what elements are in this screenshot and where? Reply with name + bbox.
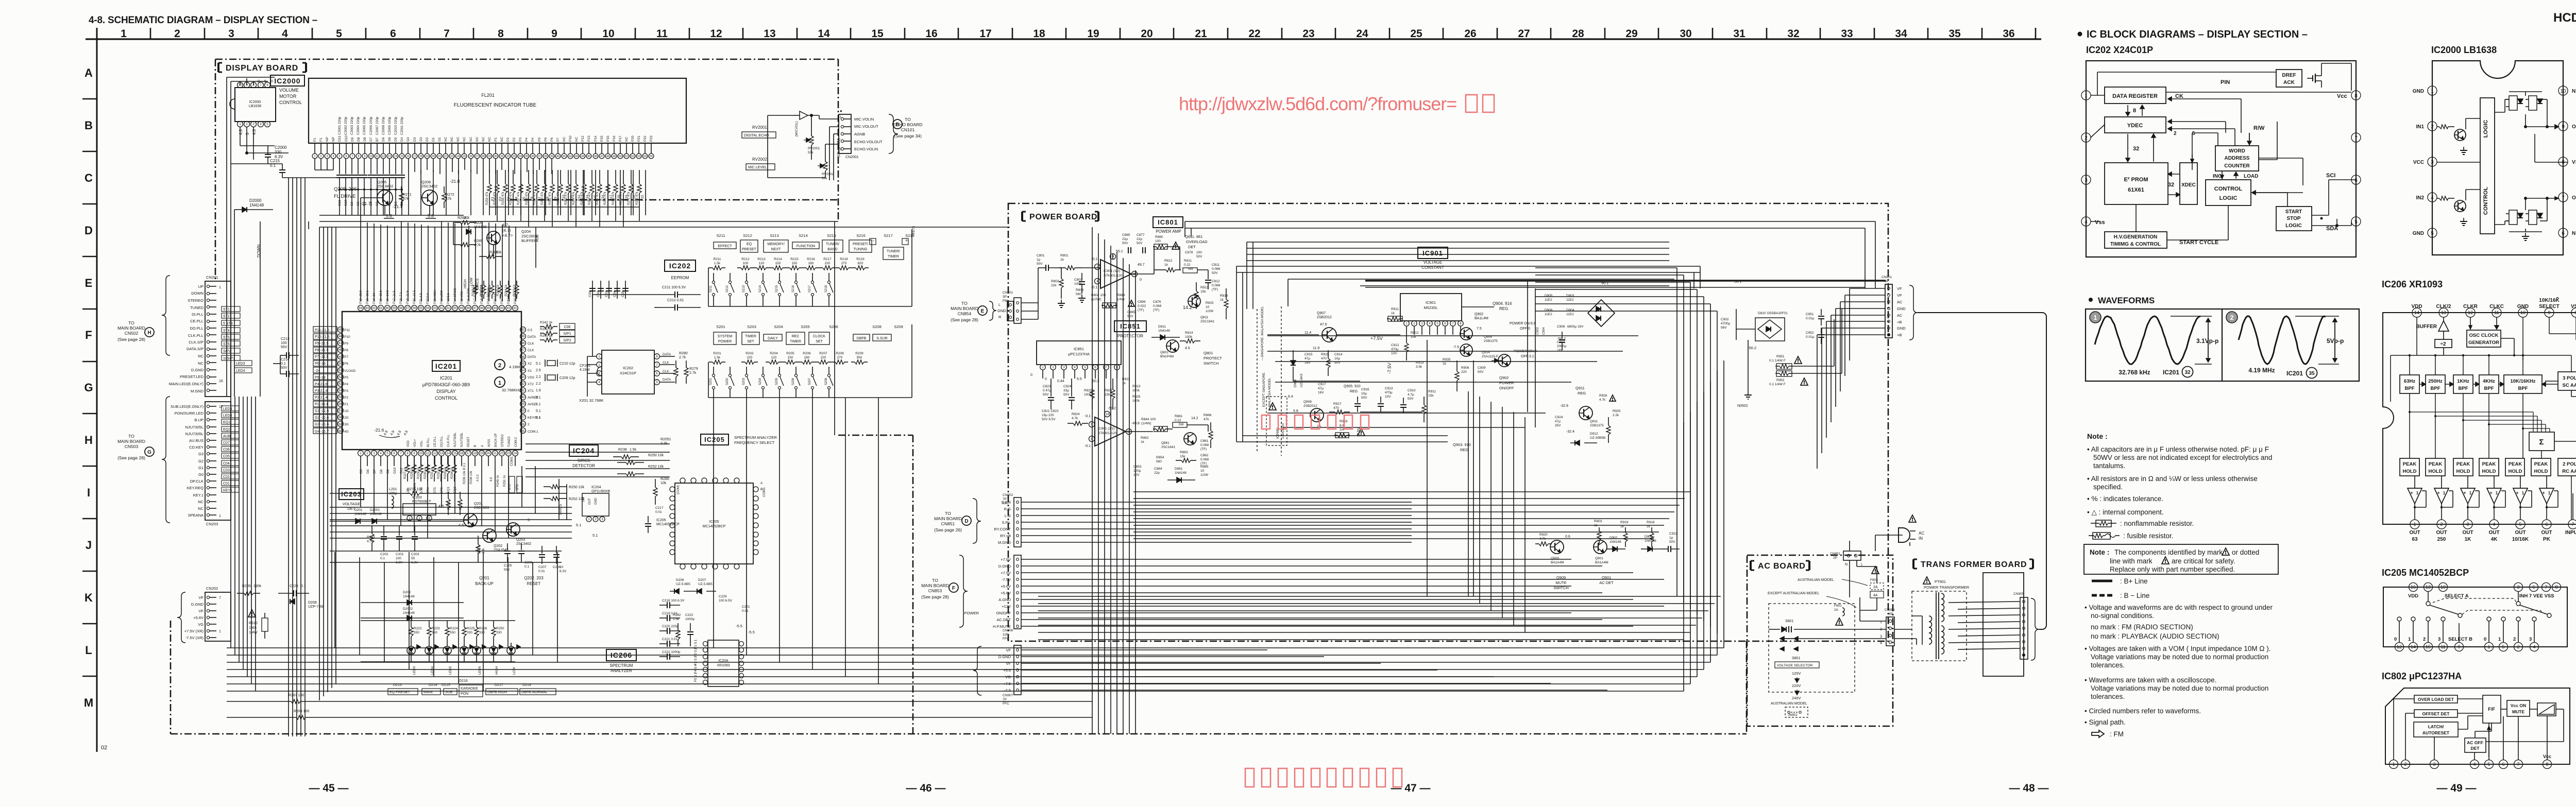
svg-text:0.01μ: 0.01μ bbox=[1806, 317, 1815, 320]
svg-text:R803: R803 bbox=[1076, 288, 1084, 292]
IC205 bottom pin 4 bbox=[2530, 643, 2539, 651]
svg-text:49.7: 49.7 bbox=[1138, 263, 1145, 267]
svg-text:52: 52 bbox=[339, 376, 343, 379]
svg-text:R271: R271 bbox=[403, 193, 412, 197]
svg-text:5.8: 5.8 bbox=[1293, 409, 1298, 413]
svg-text:50V: 50V bbox=[1063, 393, 1070, 397]
svg-text:D901: D901 bbox=[1645, 535, 1653, 539]
svg-text:• △ : internal component.: • △ : internal component. bbox=[2087, 508, 2164, 516]
svg-text:R263 47k: R263 47k bbox=[565, 191, 568, 205]
svg-text:39: 39 bbox=[521, 335, 525, 338]
IC2000 CONTROL LOGIC box bbox=[2480, 98, 2495, 234]
svg-text:2SC3402: 2SC3402 bbox=[516, 542, 531, 546]
C201 capacitor bbox=[399, 525, 400, 536]
svg-text:no mark : PLAYBACK (AUDIO SECT: no mark : PLAYBACK (AUDIO SECTION) bbox=[2091, 632, 2219, 640]
IC206 comparator and pin 7 bbox=[2568, 520, 2576, 529]
AC board boundary bbox=[1747, 555, 1893, 726]
svg-text:550: 550 bbox=[450, 631, 455, 634]
svg-text:S204: S204 bbox=[774, 324, 783, 329]
svg-text:0.01: 0.01 bbox=[655, 510, 662, 514]
svg-text:4.7k: 4.7k bbox=[367, 540, 374, 543]
svg-text:2: 2 bbox=[2084, 135, 2088, 141]
svg-text:C2005 220p: C2005 220p bbox=[363, 116, 366, 135]
svg-text:1k: 1k bbox=[1141, 440, 1145, 444]
svg-text:-0.1: -0.1 bbox=[1091, 257, 1097, 261]
svg-text:23: 23 bbox=[1302, 28, 1314, 40]
svg-text:0.47μ: 0.47μ bbox=[1043, 389, 1052, 392]
svg-text:2SB1375: 2SB1375 bbox=[1590, 424, 1604, 427]
svg-text:DO.PLL: DO.PLL bbox=[440, 436, 444, 447]
svg-text:DATA.S/P: DATA.S/P bbox=[187, 347, 204, 351]
svg-text:Q202. 203: Q202. 203 bbox=[524, 576, 544, 580]
svg-text:μPD78043GF-060-3B9: μPD78043GF-060-3B9 bbox=[422, 382, 470, 387]
svg-text:D912: D912 bbox=[1590, 432, 1598, 436]
svg-text:4: 4 bbox=[1880, 642, 1882, 645]
capacitor column C218-C230 bbox=[667, 602, 668, 608]
svg-text:AUTORESET: AUTORESET bbox=[2422, 730, 2450, 735]
svg-text:R854: R854 bbox=[1156, 456, 1164, 459]
svg-text:LED3: LED3 bbox=[236, 362, 245, 366]
C202 capacitor bbox=[383, 525, 384, 536]
svg-text:AC: AC bbox=[1897, 313, 1903, 318]
svg-text:D205: D205 bbox=[474, 221, 483, 225]
svg-text:R272 47k: R272 47k bbox=[636, 191, 639, 205]
svg-text:F: F bbox=[85, 329, 92, 341]
svg-text:2: 2 bbox=[498, 363, 501, 369]
svg-text:RESET: RESET bbox=[527, 581, 541, 586]
svg-text:47: 47 bbox=[339, 342, 343, 345]
svg-text:C915: C915 bbox=[1304, 353, 1313, 356]
svg-text:38: 38 bbox=[544, 155, 547, 158]
IC206 pin 10 GND bbox=[2518, 308, 2528, 317]
svg-text:CLK.S/P: CLK.S/P bbox=[189, 340, 204, 345]
svg-text:HOLD: HOLD bbox=[2482, 469, 2496, 474]
svg-text:P22 D1: P22 D1 bbox=[507, 293, 511, 304]
svg-text:11: 11 bbox=[656, 28, 668, 40]
svg-text:S.P.L: S.P.L bbox=[1002, 520, 1011, 525]
svg-text:N0502: N0502 bbox=[1737, 404, 1748, 408]
svg-text:0.22: 0.22 bbox=[1175, 419, 1181, 422]
svg-text:560: 560 bbox=[1076, 293, 1081, 296]
svg-text:6: 6 bbox=[2532, 585, 2535, 590]
svg-text:IC901: IC901 bbox=[1422, 249, 1443, 257]
svg-text:2.7k: 2.7k bbox=[689, 371, 697, 375]
IC901 M5230L chip bbox=[1400, 294, 1462, 321]
FL grid capacitor row bbox=[339, 159, 340, 174]
net labels LED5 LED6 EQ AUB bbox=[222, 406, 239, 411]
svg-text:1k: 1k bbox=[1164, 263, 1168, 267]
IC206 pin 8 VSS bbox=[2571, 308, 2576, 317]
svg-text:C906: C906 bbox=[1557, 325, 1565, 329]
svg-text:P11: P11 bbox=[344, 329, 350, 332]
svg-text:10: 10 bbox=[560, 565, 564, 569]
svg-text:DISPLAY: DISPLAY bbox=[436, 389, 455, 394]
svg-text:32: 32 bbox=[506, 155, 510, 158]
svg-text:+: + bbox=[2463, 490, 2466, 495]
IC201 right pins 40-25 bbox=[520, 327, 526, 333]
svg-text:S211: S211 bbox=[717, 233, 725, 238]
svg-text:16: 16 bbox=[406, 155, 410, 158]
svg-text:(See page 28): (See page 28) bbox=[117, 337, 145, 342]
svg-text:R889: R889 bbox=[1117, 294, 1125, 297]
svg-text:49: 49 bbox=[613, 155, 616, 158]
svg-text:1: 1 bbox=[2416, 491, 2419, 495]
svg-text:47μ: 47μ bbox=[1318, 387, 1324, 390]
svg-text:IC851: IC851 bbox=[1074, 347, 1084, 351]
svg-text:AUB: AUB bbox=[536, 234, 539, 242]
svg-text:47.6: 47.6 bbox=[1320, 323, 1327, 327]
svg-text:TIMIMG & CONTROL: TIMIMG & CONTROL bbox=[2110, 242, 2161, 247]
svg-text:1: 1 bbox=[219, 514, 221, 518]
IC802 pin 6 bbox=[2499, 760, 2508, 769]
IC206 comparator and pin 3 bbox=[2461, 488, 2475, 504]
svg-text:C885: C885 bbox=[1127, 311, 1136, 314]
svg-text:1N4148: 1N4148 bbox=[1175, 471, 1187, 475]
svg-text:R273: R273 bbox=[367, 536, 375, 539]
svg-text:TO: TO bbox=[128, 434, 134, 439]
svg-text:55: 55 bbox=[419, 307, 423, 310]
svg-text:32: 32 bbox=[521, 383, 525, 386]
transformer secondary wires to CN905 bbox=[1948, 602, 2020, 603]
svg-text:60: 60 bbox=[386, 307, 389, 310]
svg-text:P1: P1 bbox=[344, 403, 348, 406]
svg-text:NC: NC bbox=[488, 136, 492, 142]
IC2000 pin top 9 bbox=[244, 82, 250, 88]
svg-text:AC: AC bbox=[1897, 300, 1903, 304]
svg-text:VG: VG bbox=[198, 622, 204, 627]
svg-text:IC204: IC204 bbox=[573, 447, 595, 455]
svg-text:P10: P10 bbox=[569, 135, 572, 142]
svg-text:HOLD: HOLD bbox=[2403, 469, 2417, 474]
svg-text:4.5: 4.5 bbox=[459, 523, 464, 527]
svg-text:47k: 47k bbox=[446, 197, 452, 201]
svg-text:27: 27 bbox=[1518, 28, 1530, 40]
svg-text:GP1U90XB: GP1U90XB bbox=[591, 490, 611, 493]
svg-text:G6: G6 bbox=[388, 137, 392, 142]
svg-text:18: 18 bbox=[419, 155, 422, 158]
svg-text:R254 47k: R254 47k bbox=[494, 191, 497, 205]
svg-text:1μ: 1μ bbox=[1669, 536, 1673, 540]
svg-text:16: 16 bbox=[219, 380, 223, 383]
svg-text:PEAK: PEAK bbox=[2482, 461, 2496, 467]
svg-text:G10: G10 bbox=[393, 467, 397, 474]
svg-text:0: 0 bbox=[2484, 637, 2486, 642]
svg-text:+5.6V: +5.6V bbox=[1001, 591, 1011, 595]
svg-text:AUSTRALIAN MODEL: AUSTRALIAN MODEL bbox=[1798, 578, 1834, 582]
svg-text:1K: 1K bbox=[2465, 537, 2472, 542]
svg-text:G3: G3 bbox=[198, 452, 204, 456]
svg-text:NC: NC bbox=[500, 136, 504, 142]
svg-text:G7: G7 bbox=[373, 469, 377, 474]
svg-text:R213: R213 bbox=[757, 257, 766, 261]
svg-text:18: 18 bbox=[1033, 28, 1045, 40]
svg-text:TIMER: TIMER bbox=[888, 255, 899, 259]
svg-text:P12: P12 bbox=[581, 135, 585, 142]
svg-text:F801: F801 bbox=[1834, 604, 1842, 608]
svg-text:R862: R862 bbox=[1141, 436, 1149, 440]
svg-text:TO: TO bbox=[128, 320, 134, 325]
svg-text:(1/2W): (1/2W) bbox=[1091, 298, 1101, 301]
power board loop wires bbox=[1236, 266, 1700, 267]
IC205 bottom pin 14 bbox=[2409, 643, 2418, 651]
svg-text:LATCH/: LATCH/ bbox=[2428, 724, 2444, 729]
svg-text:+7.5V: +7.5V bbox=[1370, 336, 1383, 341]
svg-text:C910: C910 bbox=[1408, 389, 1416, 392]
svg-text:4.8: 4.8 bbox=[239, 129, 243, 135]
svg-text:: fusible resistor.: : fusible resistor. bbox=[2123, 532, 2174, 540]
svg-text:• Circled numbers refer to wav: • Circled numbers refer to waveforms. bbox=[2084, 707, 2201, 715]
IC205 contact bbox=[2516, 617, 2520, 621]
svg-text:VF: VF bbox=[1006, 661, 1011, 666]
DREF ACK box bbox=[2276, 70, 2302, 87]
IC206 designator bbox=[606, 649, 636, 661]
wires into CN901 bbox=[1850, 288, 1885, 289]
svg-text:250: 250 bbox=[2437, 537, 2446, 542]
svg-text:PRESET.LED: PRESET.LED bbox=[180, 374, 204, 379]
svg-text:C04: C04 bbox=[223, 462, 230, 466]
svg-text:Q201: Q201 bbox=[479, 576, 489, 580]
svg-text:59: 59 bbox=[339, 423, 343, 426]
svg-text:C222: C222 bbox=[685, 613, 693, 617]
svg-text:53: 53 bbox=[339, 383, 343, 386]
svg-text:LOGIC: LOGIC bbox=[2219, 195, 2238, 201]
svg-text:P13: P13 bbox=[587, 135, 591, 142]
svg-text:G1: G1 bbox=[198, 466, 204, 470]
svg-text:IC2000: IC2000 bbox=[274, 77, 300, 85]
svg-text:+7.5V: +7.5V bbox=[1001, 557, 1011, 562]
svg-text:P4: P4 bbox=[344, 383, 348, 386]
svg-text:Note :: Note : bbox=[2090, 548, 2109, 556]
LED resistor row bbox=[411, 621, 412, 627]
svg-text:S214: S214 bbox=[799, 233, 808, 238]
svg-text:AC.DET: AC.DET bbox=[996, 617, 1011, 622]
svg-text:C05: C05 bbox=[223, 455, 230, 458]
svg-text:MAIN BOARD: MAIN BOARD bbox=[951, 306, 978, 311]
svg-text:5: 5 bbox=[338, 155, 340, 158]
svg-text:-50.2: -50.2 bbox=[1108, 407, 1116, 410]
svg-text:R272: R272 bbox=[446, 193, 454, 197]
svg-text:or dotted: or dotted bbox=[2232, 548, 2259, 556]
svg-text:R2051: R2051 bbox=[660, 438, 671, 441]
svg-text:R257 47k: R257 47k bbox=[517, 191, 520, 205]
svg-text:4A: 4A bbox=[1873, 594, 1878, 597]
svg-text:4.7k: 4.7k bbox=[474, 244, 481, 247]
svg-text:45: 45 bbox=[339, 329, 343, 332]
svg-text:50V 6.5V: 50V 6.5V bbox=[1042, 418, 1056, 421]
svg-text:15k: 15k bbox=[1200, 290, 1206, 294]
svg-text:5: 5 bbox=[336, 28, 342, 40]
IC901 designator bbox=[1418, 247, 1448, 259]
svg-text:C2001 220p: C2001 220p bbox=[338, 116, 342, 135]
svg-text:100k: 100k bbox=[1132, 389, 1140, 392]
svg-text:C877: C877 bbox=[1137, 233, 1145, 237]
CN2001 connector bbox=[839, 114, 851, 153]
svg-text:P17 AUBOUT: P17 AUBOUT bbox=[474, 285, 477, 304]
svg-text:8: 8 bbox=[498, 28, 504, 40]
svg-text:CLK: CLK bbox=[528, 342, 534, 346]
svg-text:+B: +B bbox=[1897, 320, 1902, 324]
svg-text:50: 50 bbox=[453, 307, 457, 310]
IC801 1-2 op amp bbox=[1100, 260, 1131, 288]
svg-text:MAIN BOARD: MAIN BOARD bbox=[117, 325, 145, 331]
AC wires to CN851 bbox=[1875, 535, 1903, 536]
IC2000 output driver top bbox=[2509, 96, 2517, 110]
svg-text:270: 270 bbox=[841, 262, 847, 265]
svg-text:-7.5: -7.5 bbox=[1004, 688, 1011, 693]
vertical drops from IC201 to bus bbox=[360, 466, 361, 507]
svg-text:10: 10 bbox=[1200, 469, 1205, 473]
svg-text:4G: 4G bbox=[344, 430, 349, 434]
svg-text:-7.5V: -7.5V bbox=[1002, 577, 1011, 582]
svg-text:50V: 50V bbox=[1669, 540, 1675, 544]
bridge rectifier D810 bbox=[1755, 318, 1785, 341]
svg-text:COM1: COM1 bbox=[510, 456, 514, 466]
svg-text:D10: D10 bbox=[345, 135, 348, 142]
svg-text:H: H bbox=[147, 330, 151, 336]
svg-text:NC: NC bbox=[198, 361, 204, 366]
svg-text:DET: DET bbox=[1188, 245, 1196, 249]
svg-text:44: 44 bbox=[494, 307, 497, 310]
svg-text:Q901: Q901 bbox=[1602, 575, 1611, 580]
svg-text:C914: C914 bbox=[1334, 353, 1343, 356]
fusible resistor symbol bbox=[2089, 535, 2093, 536]
svg-text:S212: S212 bbox=[726, 285, 729, 293]
svg-text:OSC CLOCK: OSC CLOCK bbox=[2469, 333, 2499, 338]
svg-text:10: 10 bbox=[2520, 310, 2526, 315]
svg-text:-49.8: -49.8 bbox=[1131, 422, 1140, 425]
svg-text:P19 -11.9: P19 -11.9 bbox=[406, 290, 410, 304]
svg-text:http://jdwxzlw.5d6d.com/?fromu: http://jdwxzlw.5d6d.com/?fromuser= bbox=[1179, 93, 1456, 114]
svg-text:P20 -14.3: P20 -14.3 bbox=[413, 290, 416, 304]
svg-text:RV2002: RV2002 bbox=[822, 173, 834, 176]
svg-text:IC901: IC901 bbox=[1426, 300, 1436, 305]
svg-text:Q909: Q909 bbox=[1551, 557, 1559, 560]
svg-text:R207: R207 bbox=[819, 352, 827, 355]
svg-text:20: 20 bbox=[487, 452, 490, 455]
svg-text:tolerances.: tolerances. bbox=[2091, 693, 2125, 700]
svg-text:S203: S203 bbox=[742, 377, 745, 385]
svg-text:5.1: 5.1 bbox=[536, 416, 541, 420]
LED3 LED4 boxed labels bbox=[234, 360, 252, 366]
svg-text:TUNER/: TUNER/ bbox=[826, 243, 839, 246]
svg-text:PROTECT: PROTECT bbox=[1204, 356, 1222, 360]
svg-text:47k: 47k bbox=[1204, 418, 1209, 421]
svg-text:F1: F1 bbox=[313, 138, 317, 142]
svg-text:POWER ON:6.8: POWER ON:6.8 bbox=[1510, 322, 1536, 325]
IC2000 pin 6 N.C. bbox=[2558, 228, 2568, 237]
svg-text:CN854: CN854 bbox=[958, 311, 972, 316]
svg-text:LOGIC: LOGIC bbox=[2285, 223, 2302, 229]
svg-text:16: 16 bbox=[2411, 585, 2416, 590]
transformer secondary coils bbox=[1941, 593, 1944, 599]
svg-text:R215: R215 bbox=[790, 257, 799, 261]
svg-text:1k: 1k bbox=[1122, 382, 1126, 385]
svg-text:50WV or less are not indicated: 50WV or less are not indicated except fo… bbox=[2093, 454, 2272, 461]
svg-text:X2: X2 bbox=[528, 362, 532, 366]
svg-text:2: 2 bbox=[2517, 644, 2519, 649]
net labels ST1-ST6 S/P bbox=[222, 306, 240, 312]
svg-text:5: 5 bbox=[245, 132, 250, 135]
svg-text:8P: 8P bbox=[1885, 280, 1889, 283]
svg-text:820: 820 bbox=[858, 262, 863, 265]
svg-text:8: 8 bbox=[358, 155, 359, 158]
svg-text:50V: 50V bbox=[1127, 315, 1133, 318]
svg-text:UZ-5.6B5: UZ-5.6B5 bbox=[676, 582, 690, 586]
svg-text:C876: C876 bbox=[1153, 300, 1161, 304]
IC201 display control MCU bbox=[342, 312, 521, 450]
IC205 top pin 6 bbox=[2530, 583, 2538, 592]
svg-text:P13 -19.1: P13 -19.1 bbox=[366, 290, 369, 304]
svg-text:CE.PLL: CE.PLL bbox=[434, 436, 437, 447]
svg-text:1/2W: 1/2W bbox=[1206, 310, 1214, 313]
svg-text:0.44: 0.44 bbox=[1057, 380, 1064, 383]
svg-text:LB1638: LB1638 bbox=[249, 105, 261, 108]
svg-text:R251 1k: R251 1k bbox=[503, 475, 506, 487]
svg-text:(COM): (COM) bbox=[677, 485, 680, 494]
svg-text:BI.PLL: BI.PLL bbox=[427, 437, 430, 447]
svg-text:2 POLE: 2 POLE bbox=[2563, 461, 2576, 467]
svg-text:R815: R815 bbox=[1206, 301, 1214, 305]
key caption boxes lower bbox=[714, 332, 736, 345]
svg-text:1μ: 1μ bbox=[1037, 258, 1041, 262]
svg-text:ST1: ST1 bbox=[223, 308, 230, 312]
svg-text:250Hz: 250Hz bbox=[2428, 379, 2443, 384]
svg-text:10k: 10k bbox=[660, 482, 667, 485]
svg-text:CN203: CN203 bbox=[206, 522, 218, 526]
svg-text:1N4148: 1N4148 bbox=[1645, 539, 1656, 543]
svg-text:ST5: ST5 bbox=[223, 336, 230, 339]
svg-text:37: 37 bbox=[538, 155, 541, 158]
svg-text:• Voltage and waveforms are dc: • Voltage and waveforms are dc with resp… bbox=[2084, 604, 2273, 611]
svg-text:D8: D8 bbox=[357, 137, 361, 142]
svg-text:M.GND: M.GND bbox=[191, 389, 204, 393]
svg-text:+: + bbox=[2437, 490, 2439, 495]
LED diodes D213-D219 bbox=[407, 646, 415, 655]
svg-text:D11: D11 bbox=[338, 135, 342, 142]
svg-text:6: 6 bbox=[2562, 231, 2565, 236]
PEAK HOLD box 4 bbox=[2479, 458, 2499, 476]
C203 capacitor bbox=[414, 525, 415, 536]
IC2000 pin 2 IN1 bbox=[2428, 122, 2437, 131]
svg-text:MAIN BOARD: MAIN BOARD bbox=[934, 516, 962, 521]
board label DISPLAY BOARD bbox=[217, 63, 219, 72]
svg-text:Q908: Q908 bbox=[1303, 400, 1312, 404]
svg-text:0.068: 0.068 bbox=[1200, 443, 1209, 447]
svg-text:R259 47k: R259 47k bbox=[533, 191, 536, 205]
svg-text:NC: NC bbox=[482, 136, 485, 142]
svg-text:F1 0.1: F1 0.1 bbox=[694, 639, 698, 649]
svg-text:Q907: Q907 bbox=[1317, 312, 1326, 315]
svg-text:IC202: IC202 bbox=[669, 262, 691, 270]
svg-text:GND: GND bbox=[1897, 306, 1906, 311]
svg-text:NC: NC bbox=[198, 506, 204, 511]
svg-text:R250: R250 bbox=[496, 627, 504, 630]
svg-text:R279: R279 bbox=[689, 367, 698, 371]
svg-text:4P: 4P bbox=[1889, 612, 1893, 616]
svg-text:JW802: JW802 bbox=[1788, 714, 1798, 717]
IC205 bottom pin 9 bbox=[2455, 643, 2464, 651]
svg-text:P2: P2 bbox=[506, 138, 510, 142]
svg-text:6: 6 bbox=[2545, 522, 2548, 527]
svg-text:64: 64 bbox=[359, 307, 363, 310]
svg-text:P7: P7 bbox=[344, 355, 348, 359]
svg-text:CLOCK: CLOCK bbox=[813, 335, 825, 338]
svg-text:IC BLOCK DIAGRAMS – DISPLAY S: IC BLOCK DIAGRAMS – DISPLAY SECTION – bbox=[2087, 29, 2308, 40]
svg-text:VLOAD: VLOAD bbox=[344, 369, 355, 373]
svg-text:C2009 220p: C2009 220p bbox=[388, 116, 392, 135]
svg-text:1: 1 bbox=[2408, 637, 2411, 642]
svg-text:H.V.GENERATION: H.V.GENERATION bbox=[2114, 234, 2157, 240]
